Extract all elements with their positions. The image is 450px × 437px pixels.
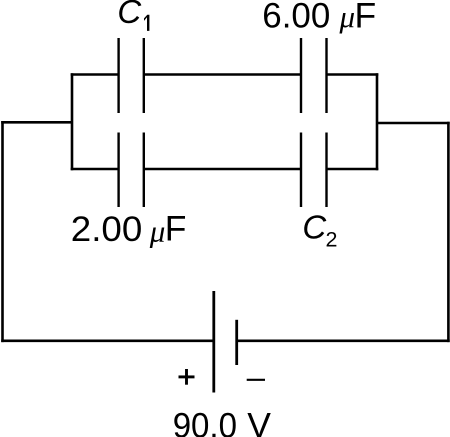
svg-text:2: 2: [326, 227, 338, 251]
svg-text:90.0: 90.0: [173, 405, 237, 437]
svg-text:F: F: [355, 0, 377, 35]
svg-text:μ: μ: [149, 214, 166, 249]
svg-text:C: C: [302, 209, 327, 246]
wire: bottom left segment (to battery + plate): [1, 339, 214, 342]
label 2.00 uF: [71, 208, 187, 249]
label C2: [302, 209, 337, 252]
wire: top rail segment 2: [144, 73, 301, 76]
wire: bottom rail segment 3: [327, 168, 379, 171]
capacitor 6.00 uF (top right): [301, 38, 327, 113]
capacitor C1 (top left): [119, 38, 144, 113]
capacitor C2 (bottom right): [301, 133, 327, 208]
wire: box left edge vertical: [71, 73, 74, 170]
svg-text:6.00: 6.00: [262, 0, 330, 35]
svg-text:V: V: [247, 405, 271, 437]
wire: box right edge vertical: [376, 73, 379, 170]
label + (positive terminal): [179, 369, 195, 385]
svg-text:F: F: [165, 208, 187, 248]
wire: right outer vertical: [447, 122, 450, 342]
wire: top rail segment 3: [327, 73, 379, 76]
wire: right connector to parallel box: [377, 122, 450, 125]
label 90.0 V: [173, 405, 272, 437]
wire: left outer vertical: [1, 121, 4, 342]
wire: top rail segment 1: [71, 73, 119, 76]
wire: bottom rail segment 1: [71, 168, 119, 171]
battery V1 positive plate (long): [212, 291, 215, 393]
wire: left connector to parallel box: [1, 121, 72, 124]
label C1: [117, 0, 149, 31]
wire: bottom rail segment 2: [144, 168, 301, 171]
label - (negative terminal): [247, 379, 265, 381]
capacitor 2.00 uF (bottom left): [119, 133, 144, 208]
svg-text:μ: μ: [339, 0, 356, 34]
svg-text:2.00: 2.00: [71, 209, 143, 249]
battery V1 negative plate (short): [235, 320, 238, 365]
wire: bottom right segment (from battery - plate): [237, 339, 450, 342]
label 6.00 uF: [262, 0, 376, 35]
svg-text:C: C: [117, 0, 142, 30]
